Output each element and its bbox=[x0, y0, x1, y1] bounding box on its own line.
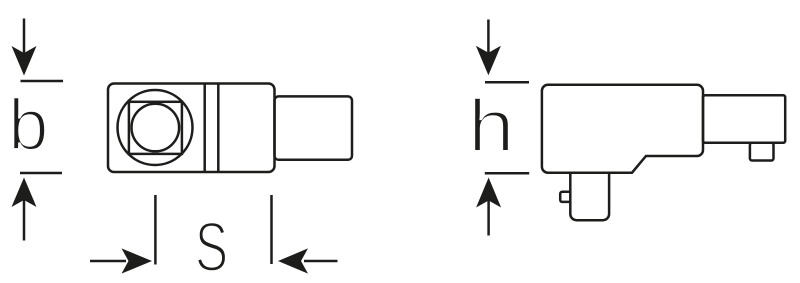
dimension S: left arrow line bbox=[90, 260, 126, 263]
left view: groove line 1 bbox=[203, 84, 206, 173]
dimension S: right extension line bbox=[270, 195, 273, 264]
right view: main body outline bbox=[542, 85, 703, 173]
dimension h: down arrowhead bbox=[476, 46, 501, 75]
dimension h: up arrow line bbox=[487, 201, 490, 236]
right view: square drive section bbox=[703, 95, 785, 143]
dimension h: top tick bbox=[485, 81, 529, 84]
dimension b: up arrow line bbox=[23, 200, 26, 241]
svg-text:b: b bbox=[8, 86, 48, 166]
left view: adapter body bbox=[108, 84, 275, 173]
dimension S: left arrowhead bbox=[122, 248, 153, 273]
dimension b: down arrowhead bbox=[12, 46, 37, 76]
dimension h: up arrowhead bbox=[476, 178, 501, 208]
dimension b: top tick bbox=[21, 80, 64, 83]
dimension S: left extension line bbox=[154, 195, 157, 265]
left view: square socket bbox=[129, 102, 182, 154]
right view: plug-in tang bbox=[570, 173, 609, 221]
dimension h: bottom tick bbox=[485, 172, 529, 175]
dimension b: down arrow line bbox=[23, 19, 26, 55]
left view: groove line 2 bbox=[217, 84, 220, 173]
dimension S: right arrowhead bbox=[278, 248, 308, 273]
left view: outer circle bbox=[118, 90, 193, 165]
right view: locking pin nub bbox=[560, 192, 570, 202]
svg-text:S: S bbox=[195, 208, 228, 283]
dimension b: up arrowhead bbox=[12, 178, 37, 208]
dimension h: down arrow line bbox=[487, 20, 490, 55]
dimension S: right arrow line bbox=[304, 260, 338, 263]
svg-text:h: h bbox=[468, 84, 515, 168]
dimension b: bottom tick bbox=[20, 172, 62, 175]
left view: square drive shank bbox=[275, 96, 353, 159]
right view: detent tab bbox=[750, 143, 774, 161]
left view: inner circle bbox=[132, 104, 180, 152]
